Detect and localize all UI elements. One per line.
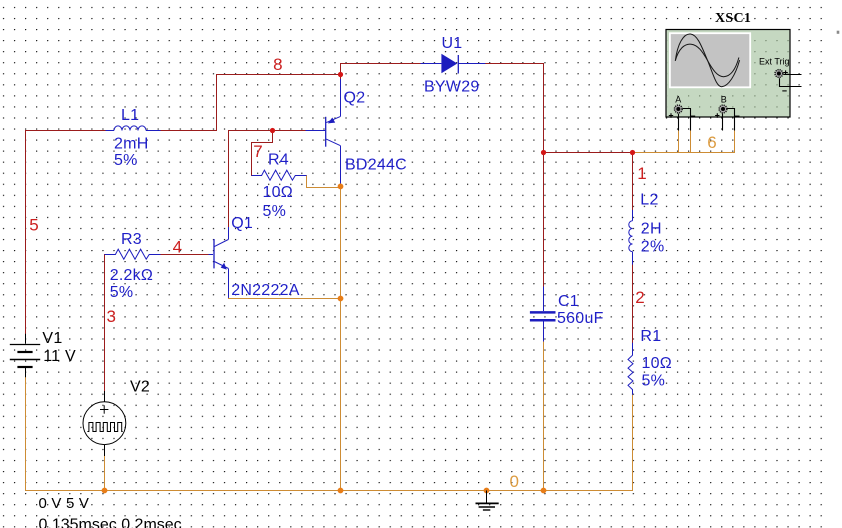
svg-text:BD244C: BD244C: [345, 157, 407, 174]
svg-text:L1: L1: [121, 107, 139, 124]
svg-text:5%: 5%: [263, 203, 287, 220]
svg-text:L2: L2: [640, 191, 658, 208]
svg-text:0.135msec 0.2msec: 0.135msec 0.2msec: [39, 516, 182, 528]
svg-text:8: 8: [273, 55, 282, 74]
svg-text:2.2kΩ: 2.2kΩ: [110, 267, 153, 284]
svg-text:560uF: 560uF: [557, 310, 604, 327]
svg-text:1: 1: [637, 164, 646, 183]
svg-text:5: 5: [29, 216, 38, 235]
svg-text:C1: C1: [558, 293, 579, 310]
svg-text:10Ω: 10Ω: [263, 184, 294, 201]
svg-text:R1: R1: [640, 328, 661, 345]
svg-text:B: B: [721, 94, 727, 104]
svg-text:A: A: [675, 94, 681, 104]
svg-text:3: 3: [107, 307, 116, 326]
svg-text:10Ω: 10Ω: [642, 355, 673, 372]
svg-text:BYW29: BYW29: [424, 79, 480, 96]
svg-text:2N2222A: 2N2222A: [231, 282, 300, 299]
svg-text:0: 0: [510, 472, 519, 491]
svg-text:V2: V2: [130, 378, 150, 395]
svg-text:Q2: Q2: [344, 89, 366, 106]
svg-text:5%: 5%: [110, 284, 134, 301]
svg-text:V1: V1: [42, 330, 62, 347]
svg-text:XSC1: XSC1: [715, 11, 751, 26]
svg-text:6: 6: [707, 133, 716, 152]
svg-text:0 V 5 V: 0 V 5 V: [39, 495, 90, 512]
svg-text:5%: 5%: [642, 373, 666, 390]
svg-text:11 V: 11 V: [43, 348, 76, 365]
svg-text:2mH: 2mH: [114, 136, 149, 153]
svg-text:2%: 2%: [641, 238, 665, 255]
svg-text:5%: 5%: [114, 152, 138, 169]
svg-text:2: 2: [635, 288, 644, 307]
svg-text:Q1: Q1: [231, 215, 253, 232]
svg-text:2H: 2H: [641, 221, 662, 238]
svg-text:7: 7: [253, 142, 262, 161]
svg-text:R3: R3: [121, 231, 142, 248]
svg-text:Ext Trig: Ext Trig: [759, 56, 790, 66]
svg-text:R4: R4: [268, 152, 289, 169]
svg-text:U1: U1: [442, 35, 463, 52]
svg-text:4: 4: [173, 238, 182, 257]
